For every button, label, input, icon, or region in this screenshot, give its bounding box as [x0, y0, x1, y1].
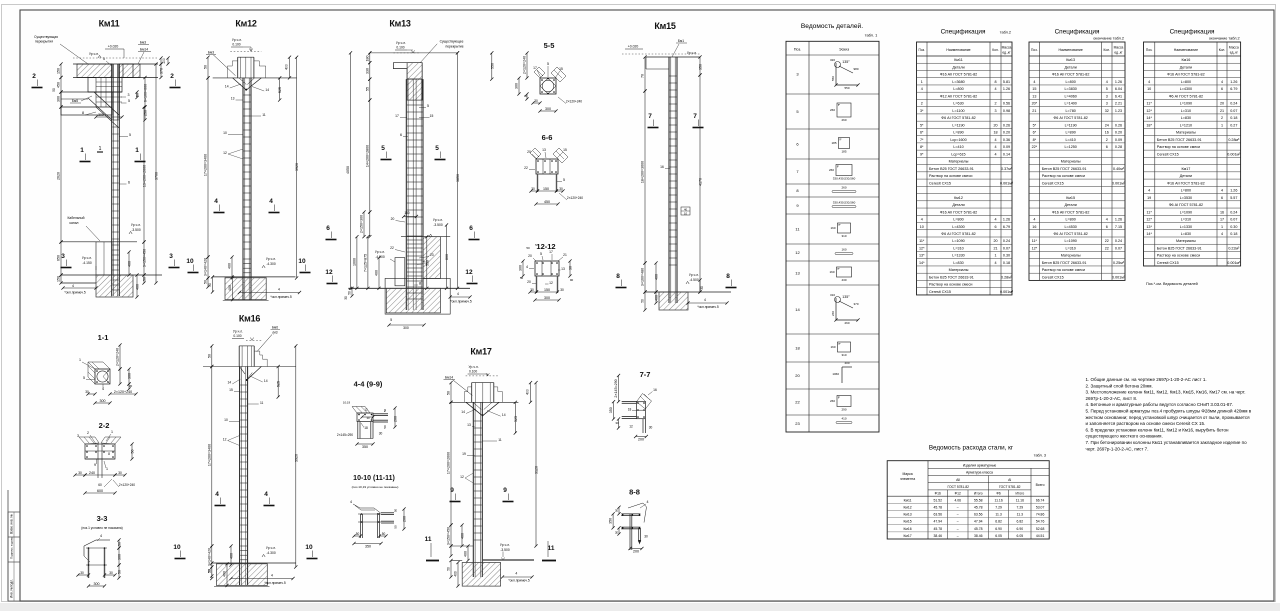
svg-text:L=1100: L=1100: [952, 109, 964, 113]
svg-text:4-4 (9-9): 4-4 (9-9): [354, 380, 383, 389]
svg-text:2: 2: [1221, 116, 1223, 120]
svg-text:Поз.: Поз.: [1146, 48, 1153, 52]
svg-text:*окл.примеч.5: *окл.примеч.5: [450, 300, 472, 304]
Km13 existing found hatch right: [423, 237, 440, 279]
svg-text:L=1210: L=1210: [1180, 123, 1192, 127]
svg-text:310: 310: [841, 234, 846, 238]
svg-text:0.26: 0.26: [1003, 123, 1010, 127]
svg-text:6.05: 6.05: [995, 534, 1002, 538]
section 8-8 dims: [618, 507, 620, 514]
svg-text:5: 5: [129, 133, 131, 137]
svg-text:5: 5: [381, 145, 385, 152]
section 5-5 dims left: [526, 53, 528, 78]
svg-text:–: –: [957, 513, 959, 517]
svg-text:5: 5: [563, 178, 565, 182]
svg-text:260: 260: [831, 311, 835, 316]
svg-text:30: 30: [379, 432, 383, 436]
Km13 bottom dims: [389, 324, 424, 326]
svg-text:L=1190: L=1190: [1065, 123, 1077, 127]
svg-text:18×200=3600: 18×200=3600: [641, 161, 645, 183]
Km13 okl note: [450, 296, 470, 298]
svg-text:Км11: Км11: [954, 58, 963, 62]
svg-text:–: –: [957, 527, 959, 531]
svg-text:16: 16: [1220, 210, 1224, 214]
svg-text:4: 4: [994, 152, 996, 156]
svg-text:23: 23: [795, 421, 800, 426]
svg-text:300: 300: [519, 265, 523, 271]
svg-text:4: 4: [704, 298, 706, 302]
svg-text:Ур.ч.п.: Ур.ч.п.: [89, 52, 99, 56]
svg-text:160: 160: [829, 270, 834, 274]
svg-text:6: 6: [326, 225, 330, 232]
svg-text:2×120=240: 2×120=240: [523, 56, 527, 74]
svg-text:2×120+240: 2×120+240: [566, 100, 582, 104]
Km13 pit rect: [395, 258, 405, 286]
svg-text:Км13: Км13: [1066, 58, 1075, 62]
section 7-7 dims: [618, 376, 620, 402]
section 1-1 dim right rot: [119, 345, 121, 369]
svg-text:0.28: 0.28: [1115, 145, 1122, 149]
svg-text:13: 13: [231, 97, 235, 101]
svg-text:400: 400: [228, 285, 232, 291]
svg-text:18*: 18*: [1146, 123, 1152, 127]
svg-text:50: 50: [383, 409, 387, 413]
svg-text:50: 50: [526, 246, 530, 250]
svg-text:Бетон В25 ГОСТ 26633-91: Бетон В25 ГОСТ 26633-91: [1157, 246, 1202, 250]
svg-text:4: 4: [994, 87, 996, 91]
svg-text:0.28м³: 0.28м³: [1228, 138, 1240, 142]
svg-text:11: 11: [262, 113, 266, 117]
svg-text:4: 4: [994, 138, 996, 142]
detail sketch poz9: [832, 206, 856, 208]
svg-text:1: 1: [99, 146, 102, 152]
svg-text:24: 24: [1105, 123, 1109, 127]
column Km17: [472, 402, 474, 577]
svg-text:550: 550: [490, 63, 494, 69]
svg-text:L=1250: L=1250: [1064, 145, 1076, 149]
svg-text:3: 3: [994, 109, 996, 113]
binding strip line: [7, 490, 9, 601]
svg-text:0.100: 0.100: [233, 334, 241, 338]
Km13 dim 150 small: [404, 216, 417, 218]
svg-text:1: 1: [79, 358, 81, 362]
svg-text:11.16: 11.16: [994, 498, 1002, 502]
svg-text:300: 300: [128, 373, 132, 379]
svg-text:–: –: [957, 505, 959, 509]
svg-text:9*: 9*: [920, 152, 924, 156]
svg-text:51.52: 51.52: [934, 498, 943, 502]
svg-text:L=1090: L=1090: [1064, 239, 1076, 243]
svg-text:6: 6: [400, 133, 402, 137]
svg-text:Бм1: Бм1: [678, 39, 684, 43]
svg-text:Детали: Детали: [952, 65, 964, 69]
svg-text:300: 300: [118, 554, 122, 560]
section 1-1 dim 300 right: [128, 369, 130, 384]
svg-text:9: 9: [503, 487, 507, 494]
svg-text:ед.,кг: ед.,кг: [1114, 51, 1123, 55]
svg-text:16: 16: [653, 388, 657, 392]
svg-text:400: 400: [454, 571, 458, 577]
svg-text:14*: 14*: [1146, 116, 1152, 120]
svg-text:525: 525: [278, 87, 282, 93]
detail sketch poz13: [837, 267, 852, 277]
svg-text:15: 15: [1032, 87, 1036, 91]
svg-text:1: 1: [1221, 225, 1223, 229]
svg-text:13: 13: [542, 148, 546, 152]
Km17 funnel V: [466, 402, 482, 415]
Km16 dense stirrups: [240, 545, 247, 547]
svg-text:3120: 3120: [535, 466, 539, 474]
svg-text:Раствор на основе смеси: Раствор на основе смеси: [1042, 268, 1085, 272]
Km11 foundation bottom notes: [63, 287, 96, 289]
svg-text:Км16: Км16: [1182, 58, 1191, 62]
Km13 slab hatch: [407, 63, 422, 79]
svg-text:30: 30: [78, 471, 82, 475]
Km12 funnel V: [233, 78, 246, 90]
svg-text:4: 4: [1221, 189, 1223, 193]
svg-text:30: 30: [649, 426, 653, 430]
svg-text:0.18: 0.18: [1230, 116, 1237, 120]
svg-text:7-7: 7-7: [640, 370, 651, 379]
svg-text:1: 1: [80, 147, 84, 154]
svg-text:Км17: Км17: [470, 347, 492, 357]
svg-text:63.56: 63.56: [934, 513, 943, 517]
svg-text:200: 200: [638, 438, 644, 442]
svg-text:2×120+240: 2×120+240: [114, 390, 132, 394]
svg-text:14: 14: [795, 307, 800, 312]
svg-text:8: 8: [726, 273, 730, 280]
svg-text:L=800: L=800: [1181, 189, 1191, 193]
section 2-2 dims bottom: [75, 474, 85, 476]
svg-text:8-8: 8-8: [629, 488, 640, 497]
svg-text:Ур.ч.л.: Ур.ч.л.: [500, 543, 510, 547]
svg-text:7: 7: [648, 113, 652, 120]
Km11 slab hatch left: [77, 64, 112, 78]
svg-text:11.16: 11.16: [1016, 498, 1024, 502]
svg-text:Ф16 АII ГОСТ 5781-82: Ф16 АII ГОСТ 5781-82: [940, 73, 977, 77]
svg-text:50: 50: [348, 291, 352, 295]
svg-text:4: 4: [215, 491, 219, 498]
svg-text:Материалы: Материалы: [1176, 239, 1196, 243]
svg-text:4: 4: [1221, 232, 1223, 236]
svg-text:21: 21: [1220, 109, 1224, 113]
svg-text:1060: 1060: [832, 372, 839, 376]
svg-text:8: 8: [108, 452, 110, 456]
svg-text:10-10 (11-11): 10-10 (11-11): [353, 475, 395, 482]
svg-text:5: 5: [390, 318, 392, 322]
svg-text:0.09: 0.09: [1115, 138, 1122, 142]
svg-text:400: 400: [228, 263, 232, 269]
svg-text:Детали: Детали: [1180, 174, 1192, 178]
Km12 left chain: [207, 57, 209, 78]
svg-text:элемента: элемента: [900, 477, 915, 481]
detail sketch poz7: [836, 165, 852, 176]
svg-text:6: 6: [128, 181, 130, 185]
svg-text:50: 50: [383, 425, 387, 429]
svg-text:20: 20: [795, 373, 800, 378]
svg-text:Бм3: Бм3: [208, 51, 214, 55]
svg-text:7×125=875: 7×125=875: [363, 254, 367, 272]
svg-text:4: 4: [1148, 80, 1150, 84]
svg-text:0.001м³: 0.001м³: [1112, 275, 1126, 279]
svg-text:Ceresit CX15: Ceresit CX15: [1157, 261, 1179, 265]
svg-text:30: 30: [615, 421, 619, 425]
Km11 dim 50 right small: [136, 92, 138, 98]
Km13 slab outline: [393, 63, 422, 79]
svg-text:0.25м³: 0.25м³: [1113, 261, 1125, 265]
svg-text:330: 330: [365, 68, 369, 74]
svg-text:22: 22: [1105, 246, 1109, 250]
svg-text:1-1: 1-1: [98, 333, 109, 342]
svg-text:4: 4: [214, 198, 218, 205]
section 3-3 body: [84, 540, 96, 546]
svg-text:0.07: 0.07: [1003, 246, 1010, 250]
svg-text:4: 4: [647, 500, 649, 504]
Km17 top stub: [471, 383, 473, 403]
svg-text:2: 2: [32, 73, 36, 80]
svg-text:1: 1: [135, 147, 139, 154]
Km12 obrez line: [213, 77, 297, 79]
steel table data: [887, 502, 1049, 504]
svg-text:4050: 4050: [346, 166, 350, 174]
svg-text:21: 21: [993, 246, 997, 250]
svg-text:300: 300: [545, 107, 551, 111]
svg-text:20: 20: [993, 239, 997, 243]
svg-text:8: 8: [419, 282, 421, 286]
svg-text:14: 14: [264, 379, 268, 383]
svg-text:12*: 12*: [919, 246, 925, 250]
Km15 top plate: [646, 56, 700, 58]
svg-text:0.24: 0.24: [1230, 210, 1237, 214]
svg-text:350: 350: [609, 518, 613, 524]
svg-text:2×120+240: 2×120+240: [119, 483, 135, 487]
Km15 foundation hatch: [659, 292, 688, 310]
svg-text:3700: 3700: [155, 172, 159, 180]
svg-text:L=1330: L=1330: [1180, 225, 1192, 229]
svg-text:АII: АII: [956, 478, 960, 482]
svg-text:ГОСТ 5781-82: ГОСТ 5781-82: [948, 485, 970, 489]
svg-text:525: 525: [277, 381, 281, 387]
svg-text:6.79: 6.79: [1230, 87, 1237, 91]
Km17 dashed level line: [466, 375, 499, 377]
Km11 dim 400 inner: [128, 252, 130, 275]
svg-text:перекрытие: перекрытие: [445, 44, 463, 48]
svg-text:30: 30: [534, 99, 538, 103]
svg-text:3: 3: [1106, 94, 1108, 98]
Km13 dotted level line: [393, 52, 420, 54]
Km12 corbel right: [254, 61, 266, 78]
svg-text:400: 400: [230, 553, 234, 559]
svg-text:7.15: 7.15: [1115, 225, 1122, 229]
svg-text:Ф6 АI ГОСТ 5781-82: Ф6 АI ГОСТ 5781-82: [1169, 94, 1203, 98]
svg-text:Ceresit CX15: Ceresit CX15: [929, 181, 951, 185]
svg-text:300: 300: [57, 96, 61, 102]
svg-text:63.56: 63.56: [974, 513, 983, 517]
column Km15: [668, 57, 670, 303]
svg-text:550: 550: [425, 260, 429, 266]
svg-text:3. Местоположение колонн Км11,: 3. Местоположение колонн Км11, Км12, Км1…: [1086, 390, 1246, 395]
svg-text:+0.020: +0.020: [628, 45, 639, 49]
Km13 dim 7x125=875: [367, 237, 369, 289]
svg-text:12: 12: [325, 269, 333, 276]
svg-text:1: 1: [994, 254, 996, 258]
svg-text:300: 300: [100, 399, 106, 403]
svg-text:Ур.ч.л.: Ур.ч.л.: [689, 273, 699, 277]
Km13 dim 4050: [350, 53, 352, 288]
svg-text:12*: 12*: [1032, 246, 1038, 250]
svg-text:L=4060: L=4060: [1064, 94, 1076, 98]
svg-text:3: 3: [77, 434, 79, 438]
svg-text:70: 70: [641, 74, 645, 78]
Km12 foundation hatch: [225, 278, 266, 300]
svg-text:50: 50: [143, 277, 147, 281]
svg-text:7. При бетонировании колонны К: 7. При бетонировании колонны Км11 устана…: [1086, 440, 1248, 445]
svg-text:150: 150: [544, 288, 550, 292]
svg-text:10: 10: [224, 418, 228, 422]
svg-text:45.78: 45.78: [974, 527, 983, 531]
svg-text:30: 30: [344, 296, 348, 300]
svg-text:-4.300: -4.300: [266, 551, 276, 555]
svg-text:20: 20: [527, 280, 531, 284]
svg-text:10: 10: [186, 258, 194, 265]
svg-text:50: 50: [641, 299, 645, 303]
svg-text:50: 50: [52, 88, 56, 92]
svg-text:Существующая: Существующая: [34, 35, 58, 39]
Km13 left chain: [369, 53, 371, 63]
detail sketch poz22: [837, 396, 851, 407]
svg-text:30: 30: [530, 288, 534, 292]
Km16 dashed level line: [246, 339, 262, 341]
Km16 obrez line: [203, 366, 296, 368]
svg-text:22: 22: [524, 166, 528, 170]
svg-text:400: 400: [375, 270, 379, 276]
svg-text:11*: 11*: [919, 239, 925, 243]
Km15 right chain: [699, 57, 701, 75]
svg-text:-3.500: -3.500: [500, 548, 510, 552]
svg-text:11*: 11*: [1032, 239, 1038, 243]
Km13 slab-column hatch: [407, 79, 422, 100]
svg-text:4: 4: [994, 218, 996, 222]
svg-text:50: 50: [207, 569, 211, 573]
svg-text:6.05: 6.05: [1017, 534, 1024, 538]
svg-text:8: 8: [616, 273, 620, 280]
Km11 gusset diagonal 2: [96, 107, 119, 128]
svg-text:12: 12: [629, 425, 633, 429]
detail sketch poz23: [836, 422, 852, 424]
svg-text:5. Перед установкой арматуры п: 5. Перед установкой арматуры поз.4 пробу…: [1086, 408, 1252, 414]
svg-text:60: 60: [98, 483, 102, 487]
svg-text:5*: 5*: [920, 123, 924, 127]
svg-text:3: 3: [1106, 102, 1108, 106]
detail sketch poz5: [837, 103, 851, 117]
column Km13: [405, 79, 407, 310]
detail sketch poz3: [835, 63, 837, 85]
svg-text:L=310: L=310: [1181, 109, 1191, 113]
section 5-5 dims bottom: [533, 102, 540, 104]
svg-text:8*: 8*: [920, 145, 924, 149]
svg-text:9: 9: [450, 487, 454, 494]
svg-text:10;19: 10;19: [343, 401, 351, 405]
svg-text:3-3: 3-3: [97, 514, 108, 523]
svg-text:12: 12: [549, 281, 553, 285]
svg-text:Lср=615: Lср=615: [951, 152, 965, 156]
svg-text:2-2: 2-2: [99, 421, 110, 430]
detail sketch poz11: [838, 223, 851, 233]
svg-text:150: 150: [57, 276, 61, 282]
svg-text:Раствор на основе смеси: Раствор на основе смеси: [929, 283, 972, 287]
svg-text:5: 5: [1106, 87, 1108, 91]
Km11 gusset diagonal: [94, 92, 119, 115]
svg-text:Бетон В25 ГОСТ 26633-91: Бетон В25 ГОСТ 26633-91: [1157, 138, 1202, 142]
svg-text:существующего жесткого основан: существующего жесткого основания.: [1086, 434, 1163, 439]
svg-text:Материалы: Материалы: [949, 160, 969, 164]
svg-text:180: 180: [365, 56, 369, 62]
svg-text:50: 50: [208, 283, 212, 287]
svg-text:30: 30: [80, 571, 84, 575]
svg-text:Раствор на основе смеси: Раствор на основе смеси: [1157, 254, 1200, 258]
Km13 dim 550 rot: [426, 237, 428, 289]
svg-text:Ceresit CX15: Ceresit CX15: [1042, 181, 1064, 185]
svg-text:Ведомость деталей.: Ведомость деталей.: [801, 22, 863, 30]
detail sketch poz8: [832, 191, 856, 193]
svg-text:0.24: 0.24: [1115, 239, 1122, 243]
svg-text:0.22м³: 0.22м³: [1228, 246, 1240, 250]
svg-text:4: 4: [1106, 218, 1108, 222]
svg-text:Бм3: Бм3: [140, 41, 146, 45]
svg-text:4: 4: [72, 284, 74, 288]
svg-text:66.74: 66.74: [1036, 498, 1045, 502]
svg-text:-4.500: -4.500: [689, 278, 699, 282]
svg-text:Ведомость расхода стали, кг: Ведомость расхода стали, кг: [929, 445, 1014, 452]
svg-text:L=410: L=410: [1065, 138, 1075, 142]
svg-text:30: 30: [366, 416, 370, 420]
svg-text:370: 370: [160, 68, 164, 74]
svg-text:2×120+240: 2×120+240: [567, 196, 583, 200]
svg-text:5: 5: [435, 145, 439, 152]
svg-text:17: 17: [549, 250, 553, 254]
svg-text:1.26: 1.26: [1230, 189, 1237, 193]
svg-text:14: 14: [227, 381, 231, 385]
svg-text:310: 310: [830, 293, 835, 297]
svg-text:30: 30: [531, 187, 535, 191]
svg-text:L=4300: L=4300: [1180, 87, 1192, 91]
svg-text:Раствор на основе смеси: Раствор на основе смеси: [929, 174, 972, 178]
svg-text:330,430,530,560: 330,430,530,560: [833, 201, 856, 205]
Km16 corbel right: [254, 351, 267, 366]
svg-text:3×140=420: 3×140=420: [204, 258, 208, 276]
section 1-1 dims bottom: [88, 393, 95, 395]
svg-text:L=780: L=780: [1065, 109, 1075, 113]
Km13 column middle lines: [412, 79, 414, 310]
svg-text:5: 5: [540, 252, 542, 256]
svg-text:3: 3: [128, 93, 130, 97]
svg-text:8: 8: [994, 80, 996, 84]
svg-text:1.26: 1.26: [1115, 218, 1122, 222]
steel table grid: [887, 461, 1049, 539]
Km12 top stub: [237, 57, 239, 78]
Km15 pos box: [681, 207, 690, 215]
svg-text:50: 50: [118, 542, 122, 546]
svg-text:2×145=290: 2×145=290: [614, 379, 618, 397]
svg-text:54.76: 54.76: [1036, 520, 1045, 524]
svg-text:1000: 1000: [352, 258, 356, 266]
svg-text:Ур.ч.л.: Ур.ч.л.: [266, 257, 276, 261]
svg-text:4: 4: [1221, 80, 1223, 84]
bottom margin strip: [0, 603, 1280, 611]
svg-text:3×150=450: 3×150=450: [447, 527, 451, 545]
svg-text:Ур.ч.л.: Ур.ч.л.: [266, 546, 276, 550]
Km11 foundation hatch: [96, 275, 133, 297]
